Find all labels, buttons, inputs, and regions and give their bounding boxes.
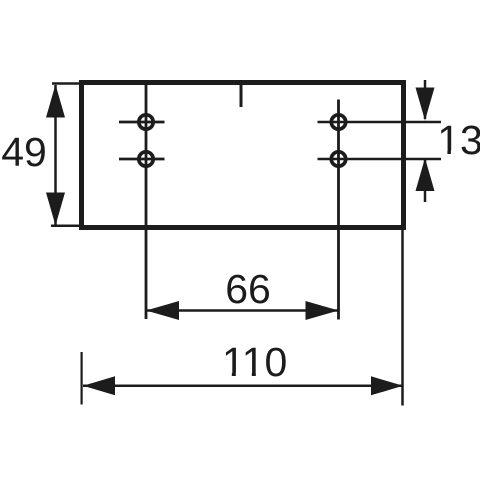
dim 49 extension line top <box>52 82 79 85</box>
dim 66 dimension line <box>146 309 339 312</box>
dim 13 arrow up <box>416 158 435 191</box>
dim 66 arrow right <box>306 301 339 320</box>
dim 110 extension line left <box>80 352 82 405</box>
svg-text:49: 49 <box>1 129 47 175</box>
crosshair hole row2 right / extension line 13 bottom <box>318 158 442 161</box>
dim 13 arrow down <box>416 88 435 121</box>
crosshair hole row2 left <box>119 158 165 161</box>
dim 13 dimension line bottom <box>424 160 427 202</box>
dim 66 arrow left <box>146 301 179 320</box>
crosshair hole row1 right / extension line 13 top <box>318 121 442 124</box>
top center mark <box>240 85 243 107</box>
right hole centerline <box>337 100 340 320</box>
hole bottom-right <box>331 152 345 166</box>
crosshair hole row1 left <box>119 121 165 124</box>
hole top-left <box>139 115 153 129</box>
dim 110 dimension line <box>83 385 403 388</box>
left hole centerline <box>145 84 148 319</box>
dim 49 arrow up <box>46 85 65 118</box>
dim 49 extension line bottom <box>51 225 79 228</box>
svg-text:110: 110 <box>222 339 287 385</box>
hole bottom-left <box>139 152 153 166</box>
hole top-right <box>331 115 345 129</box>
dim 49 arrow down <box>46 193 65 226</box>
dim 110 arrow right <box>371 376 403 395</box>
svg-text:13: 13 <box>437 117 480 163</box>
svg-text:66: 66 <box>225 266 271 312</box>
dim 110 extension line right <box>401 230 404 406</box>
dim 49 dimension line <box>54 85 57 225</box>
plate outline <box>82 83 404 228</box>
dim 13 dimension line top <box>424 80 427 119</box>
dim 110 arrow left <box>83 376 115 395</box>
